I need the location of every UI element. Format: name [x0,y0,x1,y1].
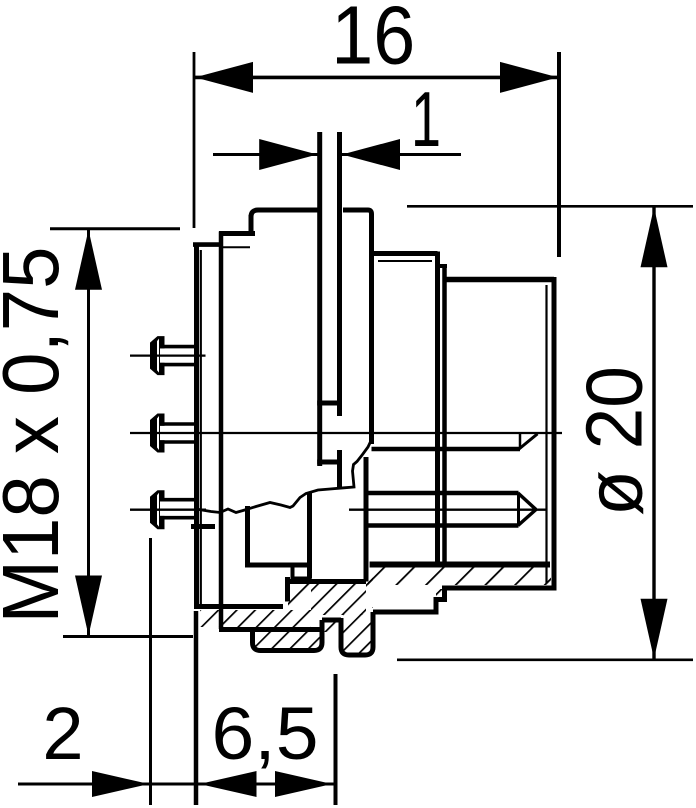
slot tab left line [317,132,322,466]
blade pin row2 tip [519,434,522,449]
central body top edge right of slot [343,210,372,444]
blade pin row3 bottom edge [366,523,519,528]
slot tab right line lower [337,450,342,488]
solder pin 2 shank [160,426,196,440]
rear flange inner edge line [200,250,202,604]
bottom mounting profile / flange underside [197,604,284,607]
dim 1 arrow left [259,139,317,170]
central body top edge left of slot [251,210,320,217]
gasket ring top edge [438,264,448,268]
washer top edge [372,251,438,256]
dim 2 arrow [92,771,149,797]
dim 2 / 6,5 baseline [18,783,336,786]
dim 2 extension [149,538,152,805]
svg-text:M18 x 0,75: M18 x 0,75 [0,247,75,624]
disc top edge [219,231,255,236]
solder pin 3 shank [160,502,196,516]
svg-text:6,5: 6,5 [212,692,319,775]
dim 6,5 extension left [194,611,199,805]
dim dia20 extension top [407,205,693,208]
slot bottom bridge [317,460,342,465]
hatch: foot 1 interior [254,629,320,649]
short section edge under pin3 [191,524,215,529]
dim 16 extension line left [193,52,196,228]
solder pin 2 cap [150,414,165,453]
hatch: pocket left of block B [288,584,311,611]
svg-text:ø 20: ø 20 [570,366,659,516]
disc left face [219,232,224,630]
dim dia20 arrow down [641,599,668,659]
bore bottom edge [370,562,550,568]
dim 16 line [194,76,559,80]
foot 2 (hatched) [341,612,373,655]
dim 1 line left [213,153,318,156]
dim M18 line [87,229,90,637]
rear flange top edge [193,242,223,247]
blade pin row3 top edge [366,491,519,496]
solder pin 3 cap [150,490,165,529]
hatch: foot 2 interior [343,614,371,653]
hatch: front cylinder wall band [368,567,551,585]
section edge left of insulator [285,577,290,602]
dim 1 line right [342,153,461,156]
centerline pin row 3 [130,509,206,511]
hatch: step block under ring [436,589,448,598]
dim 16 extension line right [557,52,561,257]
dim 1 arrow right [342,139,400,170]
gasket ring right face [442,264,447,567]
hatch: section below insulator block B [311,583,366,615]
centerline pin row 1 [130,354,206,356]
washer chamfer line [378,260,432,262]
insulator block B [288,457,366,582]
dim 6,5 arrow right [275,771,332,797]
svg-text:16: 16 [331,0,415,82]
dim 6,5 arrow left [200,771,257,797]
dim dia20 extension bottom [397,658,693,661]
section break jagged line [196,438,373,513]
foot 1 (hatched) [219,620,322,651]
dim M18 arrow up [75,230,102,290]
blade pin row3 tip [517,493,520,526]
dim M18 arrow down [75,576,102,636]
disc chamfer line [223,246,250,248]
blade pin row2 bottom edge [372,447,521,452]
slot crossbar [317,401,342,406]
hatch: saddle between feet [322,618,341,632]
dim dia20 arrow up [641,207,668,267]
dim M18 extension bottom [63,635,193,638]
solder pin 1 cap [150,336,165,375]
centerline pin row 2 (middle axis) [130,432,562,434]
svg-text:1: 1 [411,75,441,163]
saddle between feet [322,618,341,623]
dim 6,5 extension right [334,674,338,805]
dim dia20 line [652,206,655,660]
dim 16 arrow right [500,62,558,93]
front cylinder right face [552,277,557,591]
hatch: wall band left end [366,567,373,608]
insulator block A [245,506,312,565]
front cylinder top edge [446,277,554,283]
dim 16 arrow left [195,62,253,93]
slot tab right line upper [337,132,342,416]
front flange bottom profile [373,588,554,612]
central body left face [249,215,254,234]
solder pin 1 shank [160,348,196,362]
insulator block A notch [293,565,312,579]
svg-text:2: 2 [42,692,83,775]
rear flange left face [194,244,199,609]
front cylinder inner chamfer line [545,285,547,583]
washer right face [435,252,440,568]
centerline pin row 3 right segment [349,509,546,511]
dim M18 extension top [50,227,180,230]
hatch: flange underside strip [200,610,311,627]
